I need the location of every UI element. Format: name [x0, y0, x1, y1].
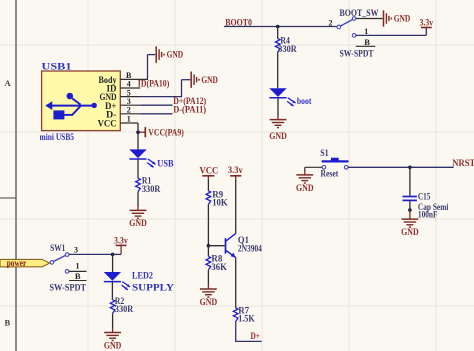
pushbutton S1 [322, 158, 349, 162]
wire base [208, 245, 224, 247]
junction C15 gnd [408, 208, 412, 212]
svg-text:SW-SPDT: SW-SPDT [340, 49, 374, 59]
label GND below R8 [200, 297, 218, 307]
USB1 pin VCC line [120, 122, 138, 124]
svg-text:330R: 330R [278, 44, 297, 54]
svg-text:NRST: NRST [452, 158, 474, 168]
ground GND below R1 [130, 210, 147, 218]
svg-text:SUPPLY: SUPPLY [132, 282, 175, 292]
net label NRST [452, 158, 474, 168]
label GND below boot LED [269, 131, 287, 141]
SW1 pin 3 terminal [65, 253, 69, 257]
connector USB1 comment mini USB5 [40, 132, 75, 142]
USB1 pin D+ line [120, 104, 140, 106]
USB1 pin number 1 [127, 115, 131, 124]
BOOT_SW pin 2 number [329, 19, 333, 28]
resistor R1 [136, 178, 141, 192]
wire BOOT_SW pin1 to 3.3v [356, 28, 426, 36]
wire BOOT0 to R4 [277, 27, 279, 39]
wire to LED2 [112, 254, 114, 272]
S1 right terminal [344, 166, 348, 170]
label 3.3v top-right [420, 17, 434, 27]
svg-text:GND: GND [394, 14, 411, 24]
svg-text:S1: S1 [320, 148, 329, 158]
port power [0, 258, 50, 268]
svg-text:Reset: Reset [321, 169, 339, 179]
BOOT_SW pin 1 number [364, 27, 368, 36]
switch S1 designator [320, 148, 329, 158]
sheet border zone divider [0, 197, 16, 199]
wire R9 to base junction [207, 204, 209, 245]
USB1 pin number 5 [127, 88, 131, 97]
wire junction to 3.3v [113, 245, 122, 254]
resistor R2 [110, 300, 115, 314]
USB1 pin D- line [120, 113, 140, 115]
svg-text:B: B [75, 271, 81, 281]
label R4 [280, 35, 290, 45]
power port VCC mid [202, 176, 214, 181]
svg-text:A: A [5, 78, 12, 88]
transistor Q1 [226, 233, 236, 257]
svg-text:GND: GND [129, 218, 147, 228]
svg-text:SW-SPDT: SW-SPDT [49, 283, 86, 293]
SW1 pin 2 terminal [50, 261, 54, 265]
resistor R8 top wire [207, 246, 209, 257]
ground GND below R2 [104, 333, 121, 341]
wire Body to GND [148, 55, 156, 80]
switch BOOT_SW designator [340, 8, 379, 18]
SW1 pin 1 number [76, 262, 80, 271]
net label BOOT0 [225, 18, 252, 28]
net label D+ bottom [251, 331, 261, 341]
ground GND usb-gnd [191, 72, 199, 88]
USB1 pin GND line [120, 96, 140, 98]
svg-text:2: 2 [329, 19, 333, 28]
BOOT_SW pin 2 terminal [337, 25, 341, 29]
ground GND c15 [402, 219, 419, 227]
label R7 value 1.5K [238, 314, 255, 324]
wire 3.3v to collector [235, 180, 237, 234]
connector USB1 designator [42, 62, 73, 72]
wire GND pin to ground [140, 80, 190, 98]
label C15 Cap Semi [418, 202, 449, 212]
S1 left terminal [322, 166, 326, 170]
USB1 pin number 3 [127, 97, 131, 106]
label SUPPLY [132, 282, 175, 292]
wire R4 to LED boot [277, 52, 279, 88]
svg-text:ID(PA10): ID(PA10) [138, 79, 170, 89]
USB1 pin name D+ [105, 101, 117, 111]
LED USB [129, 149, 155, 167]
svg-text:boot: boot [297, 96, 312, 106]
net label D-(PA11) [173, 105, 206, 115]
svg-text:VCC(PA9): VCC(PA9) [148, 127, 184, 137]
label USB [157, 158, 173, 168]
sheet border line [15, 0, 17, 351]
label R2 value 330R [115, 304, 134, 314]
USB1 pin number 4 [127, 80, 131, 89]
ground GND below R8 [200, 289, 217, 297]
wire LED2 to R2 [111, 282, 113, 300]
label SW-SPDT boot-sw [340, 49, 374, 59]
svg-text:USB: USB [157, 158, 173, 168]
label LED2 [132, 270, 153, 280]
connector USB1 body [42, 71, 121, 131]
ground GND boot-sw [384, 10, 392, 26]
wire R8 to GND [207, 270, 209, 289]
resistor R7 [233, 308, 238, 322]
svg-text:SW1: SW1 [50, 243, 66, 253]
svg-text:3.3v: 3.3v [114, 235, 128, 245]
ground GND below boot LED [270, 120, 287, 128]
power port VCC(PA9) [140, 127, 146, 137]
label R8 [211, 254, 222, 264]
wire BOOT_SW to GND [356, 18, 383, 20]
LED LED2 [104, 272, 130, 290]
junction supply [111, 253, 115, 257]
label Q1 [238, 235, 249, 245]
svg-text:BOOT_SW: BOOT_SW [340, 8, 379, 18]
svg-text:LED2: LED2 [132, 270, 153, 280]
zone label A [5, 78, 12, 88]
svg-text:36K: 36K [211, 262, 227, 272]
resistor R4 [275, 39, 280, 53]
svg-text:GND: GND [200, 297, 218, 307]
svg-text:100nF: 100nF [418, 210, 438, 220]
svg-text:10K: 10K [212, 197, 228, 207]
USB1 pin name VCC [98, 119, 117, 129]
svg-text:1: 1 [127, 115, 131, 124]
svg-text:VCC: VCC [98, 119, 117, 129]
label C15 100nF [418, 210, 438, 220]
svg-text:1: 1 [76, 262, 80, 271]
label GND below R2 [104, 341, 122, 351]
wire R7 to D+ [235, 322, 262, 342]
svg-text:330R: 330R [142, 184, 161, 194]
wire R1 to GND [137, 192, 139, 211]
svg-text:3.3v: 3.3v [420, 17, 434, 27]
wire D- pin [140, 113, 172, 115]
wire S1 to NRST [348, 166, 454, 168]
svg-text:GND: GND [296, 183, 314, 193]
USB1 pin name ID [107, 84, 117, 94]
svg-text:B: B [364, 37, 370, 47]
USB1 pin name Body [99, 75, 117, 85]
power port 3.3v sw1 [116, 244, 127, 246]
label 3.3v mid [228, 165, 243, 175]
SW1 pin 1 terminal [65, 270, 69, 274]
SW1 pin name B [75, 271, 81, 281]
USB logo [45, 93, 97, 120]
svg-text:3: 3 [74, 245, 78, 254]
LED boot [269, 88, 295, 106]
svg-text:power: power [7, 258, 27, 268]
net label ID(PA10) [138, 79, 170, 89]
USB1 pin Body line [120, 78, 147, 80]
junction BOOT0 [276, 25, 280, 29]
USB1 pin name D- [106, 109, 117, 119]
label GND usb-gnd [201, 75, 218, 85]
ground GND top-left [156, 46, 164, 62]
wire junction to C15 [409, 167, 411, 196]
label R1 [142, 175, 152, 185]
BOOT_SW pin B underline [356, 45, 376, 47]
wire LED boot to GND [277, 98, 279, 120]
svg-text:2N3904: 2N3904 [238, 243, 262, 253]
label VCC mid [199, 166, 218, 176]
net label D+(PA12) [173, 96, 206, 106]
wire SW1 pin3 [69, 253, 113, 255]
svg-text:D+: D+ [251, 331, 261, 341]
SW1 pin 1 stub [69, 270, 87, 272]
label GND boot-sw [394, 14, 411, 24]
USB1 pin number B [126, 71, 132, 80]
svg-text:GND: GND [201, 75, 218, 85]
BOOT_SW throw terminal [352, 17, 356, 21]
label GND s1 [296, 183, 314, 193]
USB1 pin name GND [100, 92, 117, 102]
power port 3.3v mid [230, 176, 241, 181]
svg-text:330R: 330R [115, 304, 134, 314]
wire VCC to R9 [207, 180, 209, 191]
SW1 pin B underline [69, 280, 87, 282]
label R9 value 10K [212, 197, 228, 207]
wire D+ pin [140, 104, 172, 106]
zone label B [5, 318, 11, 328]
wire C15 to GND [409, 200, 411, 210]
wire BOOT0 [224, 26, 337, 28]
wire R2 to GND [112, 313, 114, 332]
label GND top-left [167, 50, 184, 60]
label SW-SPDT sw1 [49, 283, 86, 293]
svg-text:GND: GND [167, 50, 184, 60]
wire VCC pin down [137, 123, 139, 149]
wire emitter to R7 [235, 258, 237, 308]
BOOT_SW pin name B [364, 37, 370, 47]
label VCC(PA9) [148, 127, 184, 137]
BOOT_SW lever [340, 19, 353, 26]
svg-text:GND: GND [401, 227, 419, 237]
svg-text:GND: GND [269, 131, 287, 141]
label R7 [238, 305, 249, 315]
label Q1 value 2N3904 [238, 243, 262, 253]
junction VCC(PA9) [136, 130, 140, 134]
label GND below R1 [129, 218, 147, 228]
label R4 value 330R [278, 44, 297, 54]
svg-text:USB1: USB1 [42, 62, 73, 72]
SW1 lever [53, 255, 65, 261]
svg-text:D-(PA11): D-(PA11) [173, 105, 206, 115]
USB1 pin number 2 [127, 106, 131, 115]
label 3.3v sw1 [114, 235, 128, 245]
SW1 pin 3 number [74, 245, 78, 254]
resistor R8 [206, 256, 211, 270]
label R1 value 330R [142, 184, 161, 194]
wire stub C15 gnd [409, 210, 411, 219]
svg-text:C15: C15 [418, 192, 431, 202]
svg-text:GND: GND [104, 341, 122, 351]
ground GND s1 [296, 175, 313, 183]
label R9 [212, 189, 223, 199]
svg-text:3.3v: 3.3v [228, 165, 243, 175]
svg-text:mini USB5: mini USB5 [40, 132, 75, 142]
switch SW1 designator [50, 243, 66, 253]
label GND c15 [401, 227, 419, 237]
wire S1 to GND [305, 167, 322, 175]
BOOT_SW pin 1 terminal [352, 34, 356, 38]
svg-text:VCC: VCC [199, 166, 218, 176]
power port 3.3v top-right bar [421, 27, 432, 29]
resistor R9 [206, 191, 211, 205]
label boot [297, 96, 312, 106]
label R2 [115, 296, 125, 306]
label Reset [321, 169, 339, 179]
label R8 value 36K [211, 262, 227, 272]
svg-text:B: B [5, 318, 11, 328]
wire LED to R1 [137, 159, 139, 178]
junction base [207, 244, 211, 248]
label C15 [418, 192, 431, 202]
junction NRST [408, 166, 412, 170]
capacitor C15 [403, 197, 417, 201]
svg-text:2: 2 [127, 106, 131, 115]
svg-text:1.5K: 1.5K [238, 314, 255, 324]
USB1 pin ID line [120, 87, 140, 89]
